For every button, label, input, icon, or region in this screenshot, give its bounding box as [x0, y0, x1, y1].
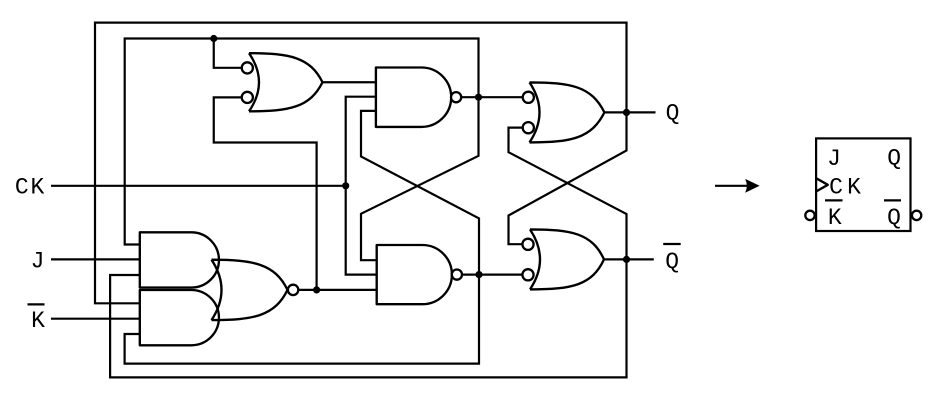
pin: clock triangle — [816, 178, 828, 191]
wire: J input line — [51, 258, 140, 260]
AND gate U3b (K steering AND, 3-input) — [140, 290, 219, 345]
svg-text:Q: Q — [887, 146, 901, 172]
node Q — [623, 109, 630, 116]
wire: cross-couple Q-bar to NOR U5 input 2 — [509, 128, 627, 260]
wire: cross-couple NAND U2 output to NAND U4 input 1 — [361, 97, 479, 260]
OR-invert stage U3c of AOI gate — [212, 260, 299, 320]
svg-text:J: J — [31, 249, 45, 275]
wire: Q-bar feedback (bottom outer line to AND-A input c) — [110, 259, 626, 377]
svg-text:K: K — [828, 205, 842, 231]
wire: K-bar input line — [51, 318, 140, 320]
wire: NAND U4 output to NOR U6 input 2 — [462, 274, 523, 276]
arrow (implies symbol) — [715, 179, 760, 193]
svg-text:C: C — [15, 175, 29, 201]
pin: K-bar input bubble — [805, 211, 814, 220]
wire: NAND U4 output feedback (inner bottom line to AND-B input c) — [125, 275, 479, 364]
svg-text:K: K — [847, 175, 861, 201]
node CK (junction on CK line) — [342, 182, 349, 189]
NOR gate U5 (Q output NOR) — [523, 82, 605, 142]
wire: NOR U1 input 2 from AOI output node — [214, 97, 317, 290]
svg-text:Q: Q — [666, 100, 680, 126]
svg-text:J: J — [827, 146, 841, 172]
wire: CK input line — [51, 185, 346, 187]
svg-text:Q: Q — [887, 205, 901, 231]
wire: AOI output to NAND U4 input 3 — [298, 289, 376, 291]
node C (AOI output junction) — [313, 286, 320, 293]
wire: cross-couple Q to NOR U6 input 1 — [509, 112, 627, 244]
svg-text:C: C — [829, 175, 843, 201]
pin: Q-bar output bubble — [912, 211, 921, 220]
wire: NAND U2 output feedback (inner top line to AND-A input a and NOR U1 input 1) — [125, 39, 479, 245]
svg-text:Q: Q — [665, 249, 679, 275]
JK flip-flop symbol U7 (box) — [816, 138, 910, 231]
NAND gate U4 (slave NAND, 3-input) — [377, 245, 462, 304]
node A (junction on inner top line) — [210, 35, 217, 42]
wire: Q output line — [604, 111, 655, 113]
svg-text:K: K — [31, 308, 45, 334]
wire: CK branch down to NAND U4 input 2 — [346, 186, 377, 275]
wire: CK branch up to NAND U2 input 2 — [346, 97, 376, 186]
NAND gate U2 (master NAND, 3-input) — [376, 68, 461, 127]
AND gate U3a (J steering AND, 3-input) — [140, 232, 219, 287]
NOR gate U6 (Q-bar output NOR) — [522, 229, 604, 289]
svg-text:K: K — [30, 175, 44, 201]
node B (NAND U2 output junction) — [475, 94, 482, 101]
wire: NOR U1 output to NAND U2 input 1 — [323, 81, 376, 83]
wire: NOR U1 input 1 stub from node A — [214, 39, 241, 68]
wire: Q feedback (top line, Q node to AND-B input a) — [95, 23, 627, 304]
wire: Q-bar output line — [604, 258, 654, 260]
NOR gate U1 (top pulse-steering NOR) — [242, 53, 323, 111]
wire: NAND U2 output to NOR U5 input 1 — [461, 96, 523, 98]
node Q-bar — [623, 256, 630, 263]
node D (NAND U4 output junction) — [475, 271, 482, 278]
wire: cross-couple NAND U4 output to NAND U2 input 3 — [361, 111, 479, 275]
